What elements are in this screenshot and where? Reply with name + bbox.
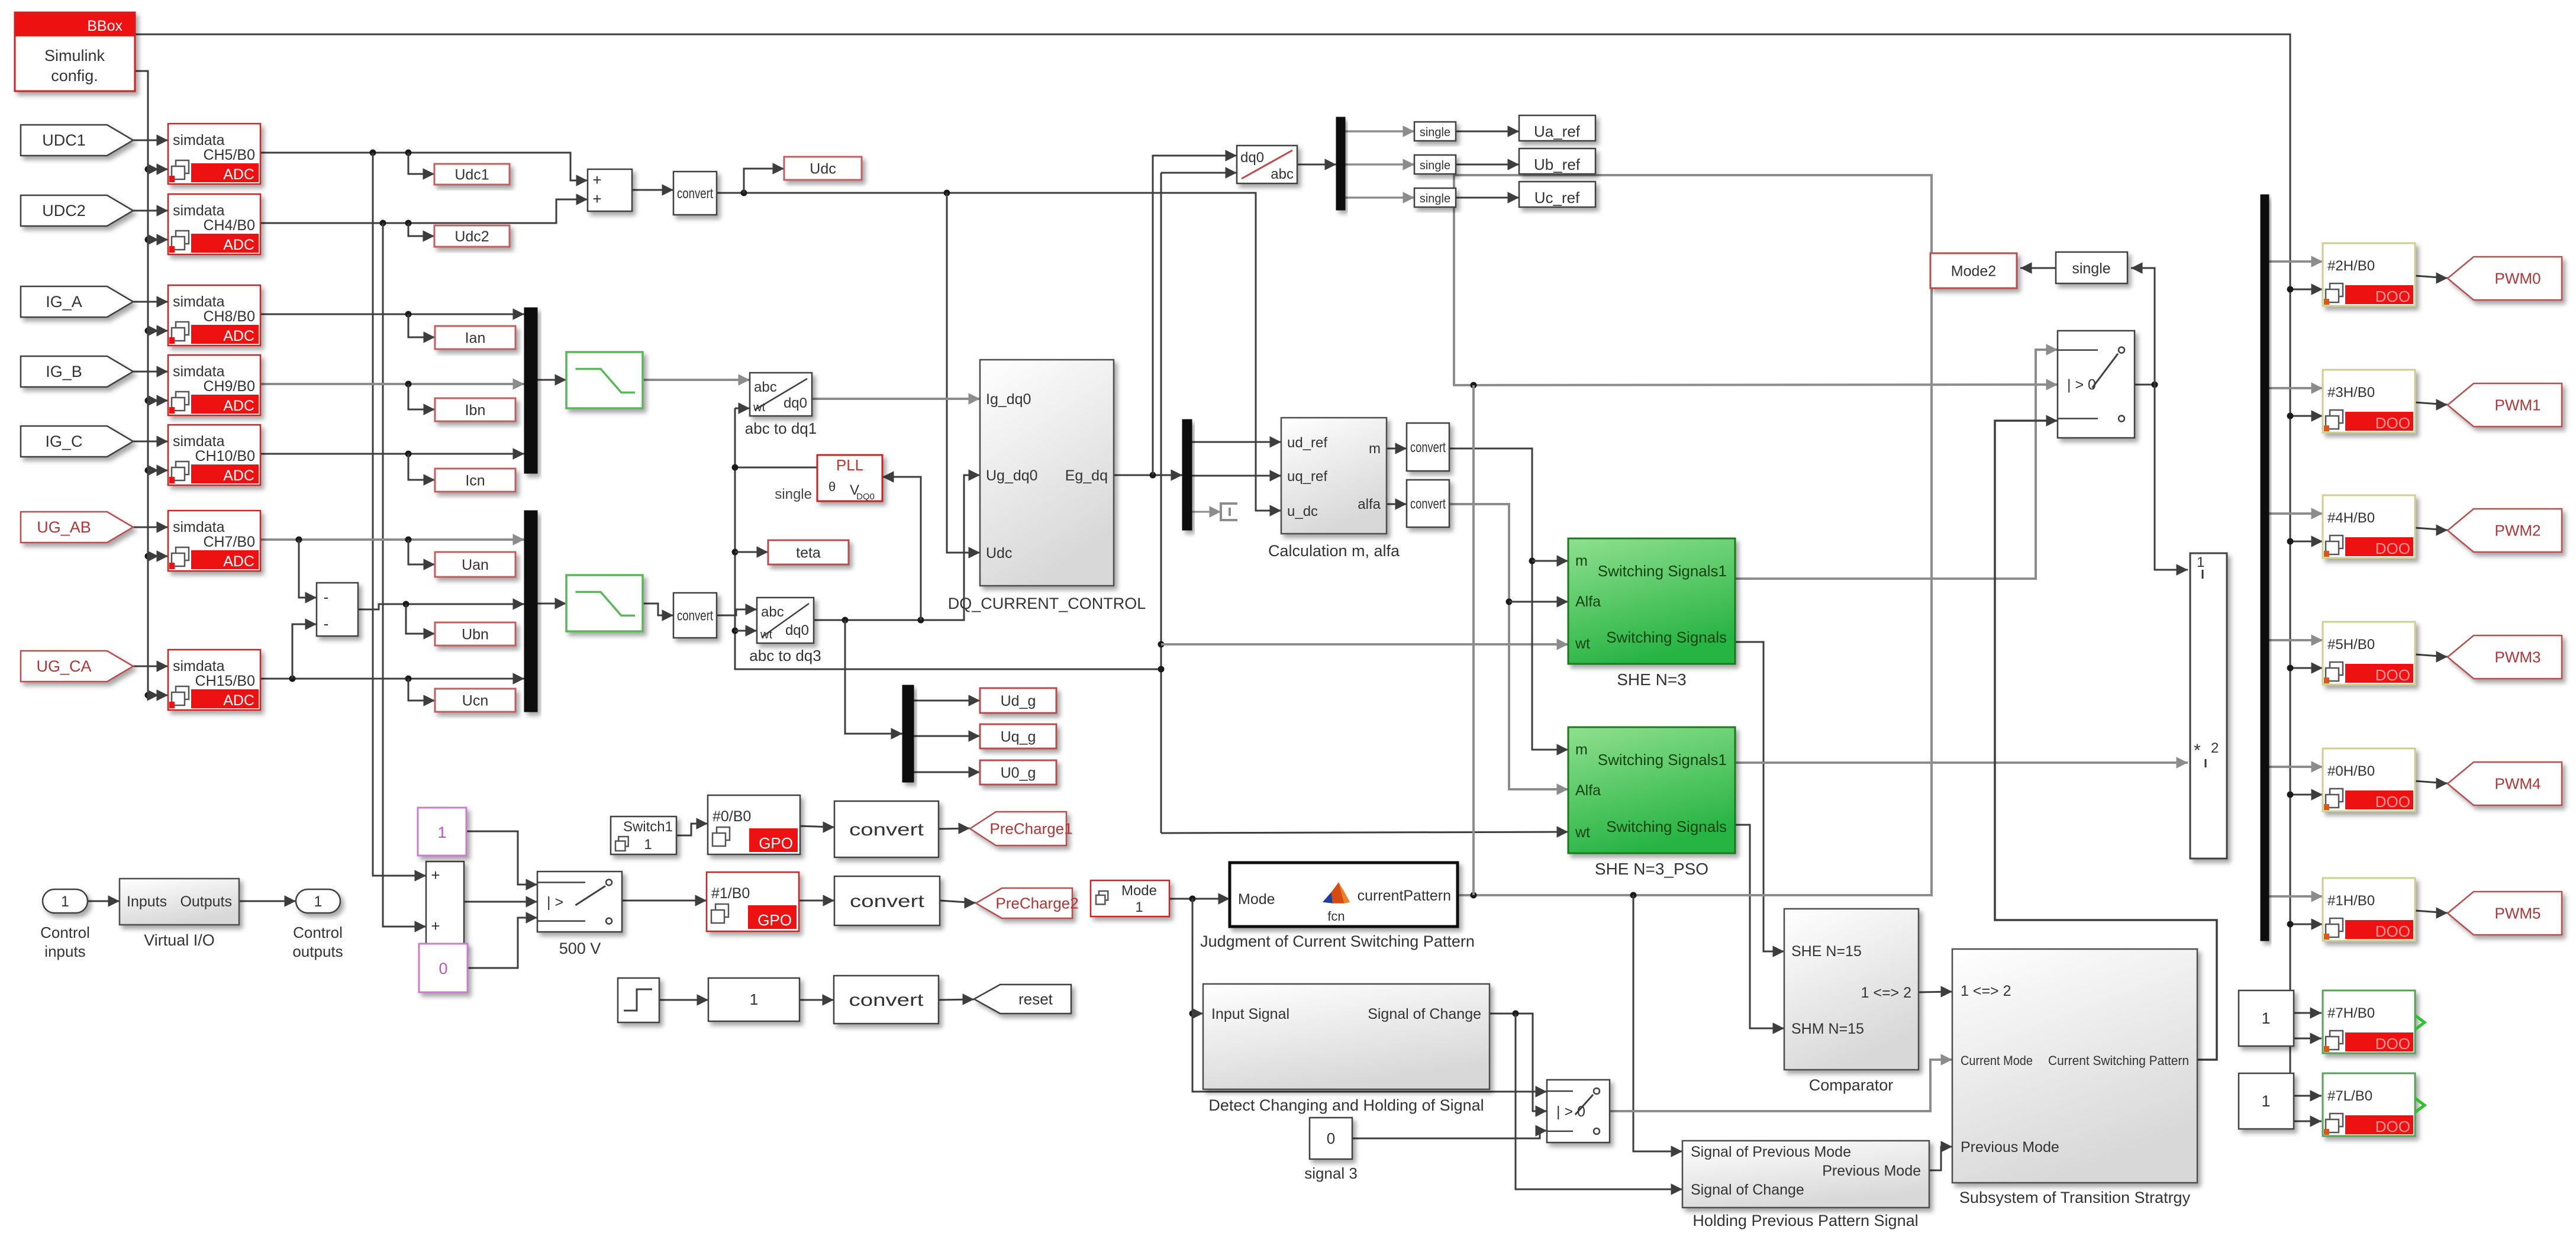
svg-text:SHE N=15: SHE N=15 [1791, 943, 1862, 960]
svg-text:Udc2: Udc2 [454, 228, 489, 245]
svg-text:fcn: fcn [1327, 909, 1345, 924]
svg-text:dq0: dq0 [785, 622, 809, 638]
svg-text:abc: abc [754, 379, 777, 395]
svg-text:single: single [775, 486, 812, 502]
svg-text:Udc1: Udc1 [454, 167, 489, 183]
svg-text:+: + [592, 190, 601, 208]
svg-text:-: - [324, 588, 329, 606]
svg-text:+: + [431, 866, 440, 884]
svg-text:Inputs: Inputs [127, 893, 167, 910]
svg-text:1: 1 [750, 990, 758, 1008]
svg-text:#2H/B0: #2H/B0 [2327, 258, 2375, 274]
svg-text:Detect Changing and Holding of: Detect Changing and Holding of Signal [1208, 1096, 1484, 1114]
svg-text:wt: wt [1575, 635, 1590, 652]
svg-text:signal 3: signal 3 [1304, 1164, 1358, 1182]
svg-text:+: + [431, 917, 440, 935]
svg-text:+: + [592, 171, 601, 189]
svg-text:ADC: ADC [223, 328, 254, 344]
svg-text:#5H/B0: #5H/B0 [2327, 637, 2375, 653]
svg-text:Ug_dq0: Ug_dq0 [986, 467, 1038, 484]
svg-text:Virtual I/O: Virtual I/O [144, 931, 215, 949]
svg-text:Signal of Change: Signal of Change [1691, 1182, 1804, 1198]
svg-text:uq_ref: uq_ref [1287, 469, 1327, 485]
svg-text:1: 1 [1135, 899, 1143, 915]
svg-text:BBox: BBox [87, 18, 122, 34]
svg-text:abc to dq3: abc to dq3 [749, 647, 821, 664]
svg-text:abc: abc [761, 604, 784, 620]
svg-text:1: 1 [2261, 1009, 2270, 1027]
svg-text:Switching Signals: Switching Signals [1606, 818, 1727, 835]
svg-text:simdata: simdata [173, 293, 225, 310]
svg-text:ADC: ADC [223, 398, 254, 414]
svg-text:Ucn: Ucn [462, 693, 488, 709]
svg-text:DOO: DOO [2375, 922, 2410, 940]
svg-text:DOO: DOO [2375, 1118, 2410, 1135]
svg-text:DOO: DOO [2375, 793, 2410, 811]
svg-text:DOO: DOO [2375, 1035, 2410, 1053]
svg-text:Input Signal: Input Signal [1211, 1006, 1289, 1022]
svg-text:Control: Control [40, 924, 90, 941]
svg-text:Mode: Mode [1121, 883, 1157, 899]
svg-text:abc: abc [1271, 166, 1294, 182]
svg-text:Uq_g: Uq_g [1001, 729, 1036, 746]
svg-text:ADC: ADC [223, 237, 254, 253]
svg-text:alfa: alfa [1358, 496, 1381, 512]
svg-text:CH9/B0: CH9/B0 [203, 378, 255, 395]
svg-text:| > 0: | > 0 [2067, 377, 2096, 393]
svg-text:Udc: Udc [986, 545, 1012, 561]
svg-text:1: 1 [314, 893, 323, 910]
svg-text:0: 0 [1327, 1129, 1335, 1147]
svg-text:| > 0: | > 0 [1556, 1103, 1585, 1120]
svg-text:DOO: DOO [2375, 414, 2410, 432]
svg-text:convert: convert [1410, 440, 1446, 456]
svg-text:simdata: simdata [173, 519, 225, 535]
svg-text:Ig_dq0: Ig_dq0 [986, 391, 1031, 408]
svg-text:DOO: DOO [2375, 540, 2410, 557]
svg-text:1: 1 [2261, 1092, 2270, 1110]
svg-text:500 V: 500 V [559, 940, 601, 957]
svg-text:PreCharge1: PreCharge1 [989, 820, 1072, 838]
svg-text:#7L/B0: #7L/B0 [2327, 1088, 2372, 1104]
svg-text:Ubn: Ubn [462, 627, 489, 643]
svg-text:U0_g: U0_g [1001, 765, 1036, 782]
svg-text:ADC: ADC [223, 692, 254, 709]
svg-text:Uc_ref: Uc_ref [1534, 189, 1580, 206]
svg-text:2: 2 [2211, 740, 2219, 756]
svg-text:wt: wt [1575, 824, 1590, 841]
svg-text:#1/B0: #1/B0 [711, 885, 750, 902]
svg-text:IG_A: IG_A [46, 293, 82, 311]
svg-text:Uan: Uan [462, 557, 489, 573]
svg-text:convert: convert [849, 990, 924, 1010]
svg-text:1: 1 [2197, 554, 2204, 570]
svg-text:Current Mode: Current Mode [1961, 1053, 2033, 1068]
svg-text:wt: wt [753, 401, 765, 414]
svg-text:Control: Control [293, 924, 343, 941]
svg-text:| >: | > [547, 894, 563, 911]
svg-text:outputs: outputs [292, 943, 343, 960]
svg-text:SHM N=15: SHM N=15 [1791, 1021, 1864, 1037]
svg-text:convert: convert [677, 608, 713, 624]
svg-text:0: 0 [439, 960, 447, 977]
svg-text:PWM5: PWM5 [2495, 905, 2541, 922]
svg-text:Switching Signals1: Switching Signals1 [1598, 751, 1727, 769]
svg-text:PWM2: PWM2 [2495, 522, 2541, 540]
svg-text:simdata: simdata [173, 433, 225, 450]
svg-text:#1H/B0: #1H/B0 [2327, 893, 2375, 909]
svg-text:Previous Mode: Previous Mode [1822, 1163, 1921, 1179]
svg-text:Subsystem of Transition Stratr: Subsystem of Transition Stratrgy [1959, 1189, 2191, 1206]
svg-text:simdata: simdata [173, 658, 225, 675]
svg-text:convert: convert [1410, 496, 1446, 512]
svg-text:SHE N=3: SHE N=3 [1617, 670, 1687, 689]
svg-text:DOO: DOO [2375, 666, 2410, 684]
svg-text:GPO: GPO [757, 911, 792, 929]
svg-text:Alfa: Alfa [1575, 782, 1601, 799]
svg-text:Outputs: Outputs [180, 893, 232, 910]
svg-text:DQ_CURRENT_CONTROL: DQ_CURRENT_CONTROL [948, 595, 1146, 612]
svg-text:Calculation m, alfa: Calculation m, alfa [1268, 542, 1400, 560]
svg-text:#4H/B0: #4H/B0 [2327, 510, 2375, 526]
svg-text:IG_C: IG_C [45, 433, 82, 450]
svg-text:CH7/B0: CH7/B0 [203, 534, 255, 550]
svg-text:UG_CA: UG_CA [36, 657, 91, 675]
svg-text:convert: convert [849, 820, 924, 840]
svg-text:Ibn: Ibn [465, 402, 486, 419]
svg-text:PWM0: PWM0 [2495, 270, 2541, 288]
svg-text:abc to dq1: abc to dq1 [745, 419, 817, 437]
svg-text:Ub_ref: Ub_ref [1534, 156, 1581, 173]
svg-text:Switching Signals1: Switching Signals1 [1598, 562, 1727, 580]
svg-text:wt: wt [760, 628, 772, 641]
svg-text:Eg_dq: Eg_dq [1065, 467, 1108, 484]
svg-text:Ud_g: Ud_g [1001, 693, 1036, 709]
svg-text:1 <=> 2: 1 <=> 2 [1861, 985, 1912, 1001]
svg-text:Udc: Udc [810, 161, 836, 178]
svg-text:GPO: GPO [759, 834, 793, 852]
svg-text:Mode2: Mode2 [1951, 263, 1996, 280]
svg-text:Simulink: Simulink [44, 47, 105, 64]
svg-text:PLL: PLL [836, 456, 863, 474]
svg-text:DQ0: DQ0 [856, 492, 875, 502]
svg-text:#3H/B0: #3H/B0 [2327, 385, 2375, 401]
svg-text:single: single [1420, 159, 1450, 172]
svg-text:u_dc: u_dc [1287, 504, 1318, 519]
svg-text:1: 1 [437, 824, 446, 841]
svg-text:Signal of Change: Signal of Change [1368, 1006, 1481, 1022]
svg-text:*: * [2194, 741, 2201, 760]
svg-text:currentPattern: currentPattern [1358, 888, 1451, 904]
svg-text:single: single [1420, 192, 1450, 205]
svg-text:1 <=> 2: 1 <=> 2 [1961, 983, 2011, 999]
svg-text:1: 1 [61, 893, 69, 910]
svg-text:UG_AB: UG_AB [37, 518, 91, 536]
svg-text:IG_B: IG_B [46, 363, 82, 380]
svg-text:DOO: DOO [2375, 288, 2410, 305]
svg-text:m: m [1369, 441, 1381, 457]
svg-text:ud_ref: ud_ref [1287, 435, 1327, 451]
svg-text:CH5/B0: CH5/B0 [203, 147, 255, 163]
svg-text:Ian: Ian [465, 330, 486, 347]
svg-text:Comparator: Comparator [1809, 1076, 1894, 1094]
svg-text:m: m [1575, 553, 1588, 569]
svg-text:1: 1 [644, 837, 652, 853]
svg-text:CH8/B0: CH8/B0 [203, 308, 255, 325]
svg-text:inputs: inputs [44, 943, 85, 960]
svg-text:simdata: simdata [173, 132, 225, 149]
svg-text:SHE N=3_PSO: SHE N=3_PSO [1595, 860, 1708, 878]
svg-text:Alfa: Alfa [1575, 593, 1601, 610]
svg-text:Switching Signals: Switching Signals [1606, 628, 1727, 646]
svg-text:ADC: ADC [223, 467, 254, 484]
svg-text:Signal of Previous Mode: Signal of Previous Mode [1691, 1144, 1851, 1160]
svg-text:UDC1: UDC1 [42, 131, 86, 149]
svg-text:ADC: ADC [223, 553, 254, 570]
svg-text:single: single [2072, 260, 2110, 277]
svg-text:Judgment of Current Switching: Judgment of Current Switching Pattern [1200, 932, 1475, 950]
svg-text:dq0: dq0 [784, 395, 807, 411]
svg-text:#0H/B0: #0H/B0 [2327, 763, 2375, 779]
svg-text:teta: teta [796, 545, 821, 561]
svg-text:UDC2: UDC2 [42, 202, 86, 220]
svg-text:convert: convert [850, 892, 925, 911]
svg-text:#7H/B0: #7H/B0 [2327, 1005, 2375, 1021]
svg-text:ADC: ADC [223, 166, 254, 183]
svg-text:CH15/B0: CH15/B0 [195, 673, 255, 689]
svg-text:-: - [324, 615, 329, 632]
svg-text:#0/B0: #0/B0 [712, 808, 751, 825]
svg-text:dq0: dq0 [1240, 150, 1264, 166]
svg-text:Previous Mode: Previous Mode [1961, 1139, 2059, 1156]
svg-text:PWM4: PWM4 [2495, 775, 2541, 793]
svg-text:PWM1: PWM1 [2495, 396, 2541, 414]
svg-text:Mode: Mode [1238, 891, 1275, 908]
svg-text:single: single [1420, 126, 1450, 139]
svg-text:CH4/B0: CH4/B0 [203, 217, 255, 234]
svg-text:PWM3: PWM3 [2495, 648, 2541, 666]
svg-text:CH10/B0: CH10/B0 [195, 448, 255, 464]
svg-text:reset: reset [1018, 990, 1053, 1008]
svg-text:m: m [1575, 741, 1588, 758]
svg-text:Ua_ref: Ua_ref [1534, 122, 1581, 140]
svg-text:convert: convert [677, 186, 713, 202]
svg-text:config.: config. [51, 67, 98, 85]
svg-text:Switch1: Switch1 [623, 819, 673, 835]
svg-text:Holding Previous Pattern Signa: Holding Previous Pattern Signal [1692, 1212, 1918, 1229]
svg-text:simdata: simdata [173, 202, 225, 219]
svg-text:PreCharge2: PreCharge2 [995, 895, 1078, 912]
svg-text:simdata: simdata [173, 363, 225, 380]
svg-text:Current Switching Pattern: Current Switching Pattern [2048, 1053, 2189, 1068]
svg-text:θ: θ [828, 479, 836, 494]
svg-text:Icn: Icn [465, 473, 485, 489]
